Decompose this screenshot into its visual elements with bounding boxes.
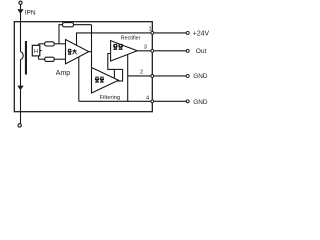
svg-text:IPN: IPN: [25, 9, 36, 16]
wire primary conductor lower: [20, 59, 22, 123]
pin1 wire out: [152, 32, 186, 34]
svg-text:1: 1: [149, 26, 152, 32]
svg-text:H: H: [34, 49, 38, 55]
wire hop bump on conductor: [21, 52, 24, 60]
terminal IPN top: [19, 1, 22, 4]
feedback wire left: [59, 25, 63, 44]
terminal bottom: [18, 124, 21, 127]
resistor R1: [45, 42, 55, 46]
feedback wire right: [74, 24, 92, 26]
pin4 gnd rail: [79, 100, 186, 102]
magnetic core bar: [25, 41, 27, 75]
svg-text:GND: GND: [193, 99, 208, 106]
pin ring 2: [151, 75, 154, 78]
wire R1 to amp: [54, 43, 65, 45]
svg-text:Filtering: Filtering: [100, 95, 121, 101]
wire R2 to amp: [54, 58, 65, 60]
amp supply stub and +24V rail: [77, 33, 153, 46]
gnd bus vertical: [127, 54, 129, 101]
pin2 wire: [128, 75, 186, 77]
output node bus: [91, 25, 93, 68]
terminal +24V: [186, 31, 189, 34]
svg-text:+24V: +24V: [193, 31, 210, 38]
svg-text:GND: GND: [193, 73, 208, 80]
wire primary conductor upper: [20, 4, 22, 52]
amp output wire: [89, 51, 92, 53]
shaping triangle (rectifier): [92, 68, 119, 94]
outer box: [14, 22, 152, 112]
terminal Out: [186, 49, 189, 52]
feedback resistor R3: [63, 23, 74, 27]
arrow down bottom: [17, 86, 23, 91]
svg-text:4: 4: [146, 95, 149, 101]
svg-text:Out: Out: [196, 48, 207, 55]
wire box to filter input: [108, 54, 115, 70]
hall element H: [32, 45, 40, 56]
pin ring 3: [151, 49, 154, 52]
svg-text:Rectifier: Rectifier: [121, 36, 141, 42]
filter triangle: [111, 41, 138, 61]
svg-text:Amp: Amp: [56, 70, 71, 77]
terminal GND4: [186, 100, 189, 103]
pin3 wire out: [137, 50, 186, 52]
cjk text 整流 in shaping triangle: [95, 77, 99, 82]
wire hall to R2: [39, 58, 45, 60]
hall stub top: [38, 44, 40, 46]
resistor R2: [45, 57, 55, 61]
white background: [0, 0, 219, 132]
small box component: [114, 69, 122, 81]
op-amp Amp triangle: [66, 40, 89, 64]
wire hall to R1: [39, 43, 45, 45]
pin ring 4: [151, 100, 154, 103]
svg-text:2: 2: [140, 70, 143, 76]
terminal GND2: [186, 74, 189, 77]
amp ground stub: [78, 57, 80, 101]
svg-text:3: 3: [144, 44, 147, 50]
cjk text 滤波 in filter triangle: [113, 44, 118, 49]
pin ring 1: [151, 32, 154, 35]
arrow down top: [17, 9, 23, 14]
hall stub bottom: [38, 56, 40, 59]
hall stub right: [40, 50, 42, 52]
cjk text 放大 in amp: [68, 49, 72, 54]
junction bus x rail: [91, 32, 93, 34]
